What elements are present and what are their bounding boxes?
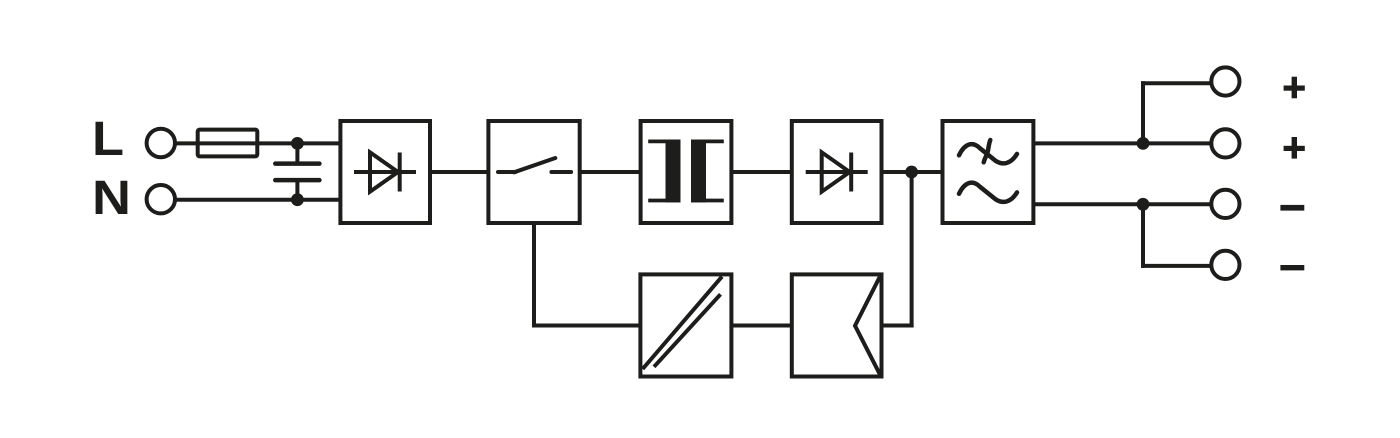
svg-text:L: L [92,113,124,166]
svg-text:N: N [92,172,131,225]
